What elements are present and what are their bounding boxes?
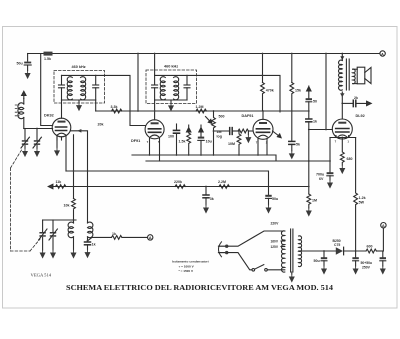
svg-text:SCHEMA ELETTRICO DEL RADIORICE: SCHEMA ELETTRICO DEL RADIORICEVITORE AM … (66, 283, 333, 292)
wire y238 to terminal (88, 237, 112, 240)
power transformer secondary (299, 236, 302, 267)
svg-text:1M: 1M (312, 199, 317, 203)
svg-text:500: 500 (219, 115, 225, 119)
terminal A mid-left (148, 235, 153, 240)
IFT2 primary coil (160, 77, 165, 100)
resistor 1k horizontal (112, 236, 122, 240)
wire: V3 anode top (262, 111, 264, 119)
svg-text:700u: 700u (316, 172, 324, 176)
capacitor 50u AC side (323, 250, 325, 252)
electrolytic 700u 6V (327, 172, 334, 174)
tube V1 DK92 (52, 118, 71, 137)
svg-text:220V: 220V (271, 222, 280, 226)
screen bus y111 (96, 110, 309, 112)
diode arrow at V3 plate (273, 131, 282, 138)
IFT2 secondary coil (174, 77, 179, 100)
svg-text:6V: 6V (319, 177, 324, 181)
svg-text:+ = 1000 V: + = 1000 V (179, 265, 195, 269)
osc trimmer CV3 (42, 220, 44, 232)
svg-text:470k: 470k (266, 89, 274, 93)
power switch (252, 269, 255, 272)
capacitor 1k on x309 (306, 118, 312, 120)
IFT1 dashed box 460 kHz (54, 71, 105, 104)
ground stub right of grid resistor (247, 131, 249, 135)
svg-text:50u: 50u (272, 197, 278, 201)
svg-text:A: A (382, 223, 385, 228)
capacitor 5k to ground (289, 140, 295, 142)
svg-text:1.2M: 1.2M (196, 105, 204, 109)
svg-text:50+50u: 50+50u (361, 261, 373, 265)
svg-text:1k: 1k (313, 120, 317, 124)
svg-text:250V: 250V (362, 265, 371, 269)
svg-text:460 kHz: 460 kHz (164, 65, 178, 69)
electrolytic 50u to ground (268, 187, 270, 195)
svg-text:125V: 125V (271, 245, 279, 249)
svg-text:DAF91: DAF91 (242, 114, 254, 118)
tube V3 DAF91 (253, 119, 273, 139)
wire: rail feed into IFT2 (154, 54, 156, 76)
tuning gang dashed link (11, 150, 41, 251)
antenna coil L1 (23, 99, 25, 105)
wire: HT down right side + resistor 1.2k 5W (354, 138, 358, 252)
wire: V2 pins down (149, 138, 151, 155)
electrolytic 10u with supply arrow (199, 125, 203, 132)
svg-text:3.3k: 3.3k (111, 105, 118, 109)
trimmer CV2 (36, 129, 38, 140)
svg-text:220k: 220k (174, 180, 182, 184)
IFT1 cap Cb (95, 75, 97, 84)
svg-text:160V: 160V (271, 240, 279, 244)
tube V4 DL92 (332, 119, 352, 139)
speaker (353, 68, 358, 70)
svg-text:VEGA 514: VEGA 514 (31, 273, 52, 278)
trimmer CV1 (24, 129, 26, 140)
IFT2 internal wires (155, 74, 187, 76)
antenna arrow (22, 91, 26, 98)
svg-text:2k: 2k (354, 96, 358, 100)
output transformer secondary (353, 69, 356, 84)
wire: V4 anode up to OT (341, 92, 343, 119)
V4 cathode network (330, 137, 356, 139)
svg-text:1.5k: 1.5k (179, 140, 186, 144)
wire: IFT1 secondary top to V2 grid (96, 75, 145, 125)
terminal A top right (380, 51, 385, 56)
filament line L1 y155 (132, 155, 276, 161)
wire: plug to transformer top (228, 231, 285, 246)
AVC line L4 y186.5 with left arrow (48, 184, 309, 188)
wire: V1 pin to filament line (65, 136, 67, 171)
wire: IFT2 out to detector line y75 (187, 75, 280, 112)
electrolytic +50 (308, 91, 310, 98)
ferrite rod dashes (15, 105, 19, 116)
svg-text:A: A (381, 51, 384, 56)
svg-text:5k: 5k (296, 143, 300, 147)
IFT1 internal top/bottom wires (62, 74, 96, 76)
electrolytic 50+50u 250V (355, 251, 357, 257)
IFT2 dashed box 460 kHz (146, 70, 197, 104)
svg-text:3k: 3k (210, 197, 214, 201)
svg-text:5W: 5W (359, 201, 365, 205)
power transformer primary (281, 231, 284, 272)
power transformer core (290, 229, 292, 272)
capacitor 100 (176, 124, 178, 130)
resistor 15k from rail (291, 54, 293, 83)
svg-text:DF91: DF91 (131, 139, 140, 143)
resistor 1.5k with supply arrow (187, 125, 191, 132)
resistor 3.3k on bus (112, 109, 122, 113)
tube V1 anode to IFT1 (61, 100, 63, 118)
wire: V1 osc grid branch (71, 131, 88, 223)
wire: secondary to rectifier (299, 250, 336, 252)
svg-text:1k: 1k (92, 242, 96, 246)
resistor 470k from rail (262, 54, 264, 83)
output transformer primary (341, 53, 343, 55)
filament line L2 y161 (146, 160, 330, 162)
capacitor C-in 50u with ground at top left (27, 54, 29, 62)
svg-text:50u: 50u (314, 259, 320, 263)
wire: V3 pins down (257, 139, 259, 155)
svg-text:15k: 15k (295, 89, 301, 93)
coupling capacitor 500 (214, 130, 230, 132)
svg-text:680: 680 (347, 157, 353, 161)
wire: V2 anode to IFT2 (154, 100, 156, 120)
output transformer core (345, 59, 347, 90)
IFT2 ground (170, 100, 172, 103)
transformer core ground (291, 272, 293, 274)
rectifier diode B250 C75 (336, 247, 343, 255)
IFT1 primary coil (67, 77, 72, 100)
primary taps (281, 240, 285, 242)
terminal A lower right (381, 223, 386, 228)
AVC line L3 y171 (66, 171, 269, 187)
svg-text:2.2M: 2.2M (218, 180, 226, 184)
IFT1 ground (78, 100, 80, 103)
resistor R 1.5k in rail (44, 52, 53, 56)
wire: top HT rail (28, 53, 380, 55)
svg-text:log: log (217, 134, 222, 138)
svg-text:600: 600 (367, 245, 373, 249)
svg-text:10M: 10M (228, 142, 235, 146)
tube V1 pin stubs (56, 136, 58, 140)
resistor 2.2M (219, 185, 229, 189)
resistor 1.2M on bus (196, 109, 206, 113)
svg-text:1k: 1k (112, 232, 116, 236)
svg-text:50: 50 (313, 99, 317, 103)
wire: grid feed to V4 (309, 129, 333, 131)
tube V2 DF91 (145, 120, 164, 139)
capacitor 1k osc (85, 241, 91, 243)
resistor 10M down (237, 131, 241, 155)
svg-text:* = 1500 V: * = 1500 V (179, 269, 194, 273)
IFT1 cap Ca (61, 75, 63, 84)
svg-text:1.5k: 1.5k (44, 57, 51, 61)
svg-text:11k: 11k (56, 180, 62, 184)
wire: left side to L2 and 700u (329, 138, 331, 173)
IFT1 secondary coil (81, 77, 86, 100)
svg-text:A: A (149, 235, 152, 240)
wire: rail drop x138 (137, 54, 139, 112)
svg-text:460 kHz: 460 kHz (72, 65, 86, 69)
capacitor 3k to ground (205, 187, 207, 195)
electrolytic output filter (382, 251, 384, 257)
svg-text:100: 100 (168, 134, 174, 138)
resistor 680 to ground (340, 138, 344, 166)
tube V1 cathode ground (56, 136, 58, 148)
svg-text:1.2k: 1.2k (359, 196, 366, 200)
osc coil Lb (88, 222, 93, 238)
svg-text:10k: 10k (64, 204, 70, 208)
resistor 220k (175, 185, 185, 189)
svg-text:Isolamento condensatori: Isolamento condensatori (172, 260, 209, 264)
svg-text:C75: C75 (334, 243, 340, 247)
wire: rail drop to tube1 grid (41, 54, 53, 126)
resistor 11k (56, 185, 66, 189)
wire after diode (344, 250, 366, 252)
svg-text:50u: 50u (17, 62, 23, 66)
svg-text:DL92: DL92 (356, 114, 365, 118)
resistor 600 (366, 249, 376, 253)
capacitor 2k branch (341, 103, 343, 105)
svg-text:DK92: DK92 (44, 114, 54, 118)
wire: rail drop x326 (325, 54, 327, 130)
PSU: mains plug (219, 242, 222, 257)
osc trimmer CV4 (52, 220, 54, 232)
wire to terminal A left (122, 236, 148, 238)
wire: antenna to tube1 (24, 128, 53, 130)
osc coil La (68, 222, 73, 238)
svg-text:10u: 10u (206, 140, 212, 144)
grid resistor to V3 (233, 130, 238, 132)
potentiometer 1M log (213, 110, 215, 112)
oscillator section: gang wire y220 (43, 219, 76, 221)
IFT2 cap Ca (152, 84, 158, 86)
svg-text:20k: 20k (98, 123, 104, 127)
node x309 vertical: supply arrow (307, 86, 311, 91)
wire: plug to switch (228, 253, 252, 270)
wire: V1 osc anode branch + R 10k (73, 135, 75, 199)
IFT2 cap Cb (184, 84, 190, 86)
resistor 1M to ground (307, 194, 311, 208)
